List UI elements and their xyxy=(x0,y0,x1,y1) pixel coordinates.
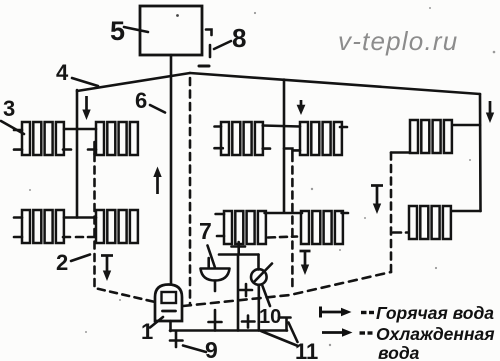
row2 mid dashed bottom link wire xyxy=(268,237,297,238)
funnel 7 stem top wire xyxy=(207,258,210,268)
radiator row1 mid B xyxy=(300,122,342,155)
valve tick on pump drop xyxy=(209,321,222,324)
row1 left A bottom-right stub wire xyxy=(63,148,71,151)
radiator row2 mid A xyxy=(224,211,266,244)
flow arrow up main riser xyxy=(153,167,161,195)
valve 9 tick xyxy=(170,339,183,342)
row2 mid A pump stub wire xyxy=(237,242,240,255)
bottom run right up-stub wire xyxy=(285,318,288,331)
pointer line label 10 xyxy=(263,286,271,306)
row1 mid A bottom-right stub wire xyxy=(263,147,270,150)
valve 10 handle xyxy=(254,264,273,283)
pointer line label 8 xyxy=(214,41,231,49)
funnel 7 bowl xyxy=(201,269,230,281)
radiator row1 left B xyxy=(96,122,138,155)
row2 left A bottom-right stub wire xyxy=(63,236,70,239)
radiator row2 left B xyxy=(96,210,138,243)
row2 left A outer bottom stub wire xyxy=(14,236,22,239)
row1 mid B bottom-left stub wire xyxy=(293,149,300,152)
T-arrow down right of mid radiators xyxy=(371,186,383,215)
legend cooled water symbol xyxy=(322,328,353,336)
T-arrow down near label 2 xyxy=(101,256,113,282)
svg-text:2: 2 xyxy=(56,250,68,275)
svg-text:Горячая вода: Горячая вода xyxy=(376,303,494,323)
svg-text:6: 6 xyxy=(135,88,147,113)
svg-text:3: 3 xyxy=(3,96,15,121)
row1 left pair top stub wire xyxy=(64,128,96,131)
return dashed main slanted wire xyxy=(183,272,391,306)
legend hot water symbol xyxy=(321,307,352,318)
row1 right bottom-left stub wire xyxy=(391,151,410,154)
supply main wire right segment xyxy=(190,73,480,94)
scan specks xyxy=(254,12,256,14)
pointer line label 4 xyxy=(72,78,98,86)
row2 left pair top stub wire xyxy=(64,216,96,219)
pointer line label 9 xyxy=(183,346,206,353)
radiator row1 left A xyxy=(22,122,64,155)
bypass right vertical upper wire xyxy=(257,255,260,270)
boiler drain wire xyxy=(169,321,172,331)
svg-text:7: 7 xyxy=(199,218,212,244)
svg-text:Охлажденная: Охлажденная xyxy=(376,324,495,344)
return dashed wire center (x190) xyxy=(189,78,192,305)
row1 mid A left stub wire xyxy=(215,125,222,128)
pointer line label 2 xyxy=(71,255,90,262)
row2 mid top stub wire xyxy=(265,212,302,215)
return dashed wire right branch (x391) xyxy=(390,153,393,273)
flow arrow down right drop xyxy=(486,101,494,123)
middle branch riser wire xyxy=(283,80,286,213)
row2 left A outer top stub wire xyxy=(14,216,22,219)
radiator row2 mid B xyxy=(301,211,343,244)
svg-text:11: 11 xyxy=(295,339,318,361)
legend hot water dashes xyxy=(361,311,374,314)
valve plus bottom left (vertical) xyxy=(247,316,250,328)
row2 mid A left stub wire xyxy=(216,213,224,216)
overflow dashed tick near tank (vertical) xyxy=(209,45,212,57)
overflow dashed tick near tank (horizontal) xyxy=(199,65,209,68)
right drop wire xyxy=(479,94,482,211)
row1 mid B right stub wire xyxy=(340,126,347,129)
boiler window xyxy=(162,292,177,303)
valve plus mid bypass (vertical) xyxy=(245,284,248,296)
row1 left A outer bottom stub wire xyxy=(14,148,22,151)
row2 right dashed left stub wire xyxy=(393,231,409,234)
valve plus on pump stub xyxy=(232,245,246,248)
radiator row2 left A xyxy=(22,210,64,243)
svg-text:9: 9 xyxy=(205,337,218,361)
flow arrow down middle riser xyxy=(297,100,306,115)
bottom run wire xyxy=(170,329,287,332)
overflow corner mark near tank xyxy=(206,30,212,36)
pointer line label 1 xyxy=(150,317,163,328)
valve plus bottom left (horizontal) xyxy=(242,320,255,323)
right row2 feed wire xyxy=(449,210,481,213)
supply main wire left segment xyxy=(77,73,190,91)
svg-text:10: 10 xyxy=(259,306,281,328)
expansion tank 5 xyxy=(140,6,202,55)
radiator row2 right xyxy=(409,206,451,239)
legend cooled water dashes xyxy=(360,331,373,334)
pump drop wire to bottom run xyxy=(214,310,217,331)
pointer line label 7 xyxy=(208,246,215,268)
valve 10 circle xyxy=(251,269,267,285)
row1 mid pair top stub wire xyxy=(263,126,300,127)
bypass right vertical lower wire xyxy=(257,285,260,331)
funnel 7 stem bottom wire xyxy=(214,281,217,292)
row2 left dashed bottom link wire xyxy=(76,236,95,239)
scan speck in tank xyxy=(176,14,179,17)
flow arrow down left riser xyxy=(82,96,90,120)
svg-text:4: 4 xyxy=(56,60,69,85)
pointer line label 3 xyxy=(1,121,24,134)
row1 left B bottom-left stub wire xyxy=(88,148,96,151)
boiler slot line xyxy=(163,310,176,313)
valve plus right end (horizontal) xyxy=(279,316,291,319)
svg-text:5: 5 xyxy=(110,16,125,46)
row1 left A outer top stub wire xyxy=(14,129,22,132)
radiator row1 mid A xyxy=(221,122,263,155)
pointer line label 6 xyxy=(150,105,165,113)
return dashed wire left (to boiler) xyxy=(95,154,156,302)
svg-text:1: 1 xyxy=(141,319,153,344)
main riser wire (tank to boiler) xyxy=(170,55,173,284)
pointer line label 11 a xyxy=(261,331,298,346)
T-arrow down below mid B radiator xyxy=(300,251,311,275)
pointer line label 11 b xyxy=(289,323,298,343)
svg-text:вода: вода xyxy=(378,343,420,361)
bypass left vertical wire xyxy=(237,255,240,331)
bypass top wire xyxy=(219,253,259,256)
row1 mid hook wire to return xyxy=(284,149,292,154)
row1 mid A bottom-left stub wire xyxy=(215,147,223,150)
pointer line label 5 xyxy=(124,27,148,32)
node return tick row1 left xyxy=(93,142,96,154)
svg-text:8: 8 xyxy=(232,23,246,53)
row2 mid A bottom-left stub wire xyxy=(217,235,224,238)
radiator row1 right xyxy=(410,120,452,153)
boiler U1 (item 1) xyxy=(155,285,182,322)
drain stub wire below bottom run xyxy=(175,331,178,347)
return dashed wire mid branch (x292) xyxy=(291,154,294,288)
left branch riser wire xyxy=(76,90,79,218)
svg-text:v-teplo.ru: v-teplo.ru xyxy=(338,26,458,56)
row2 mid B right stub wire xyxy=(342,212,348,215)
right row1 feed wire xyxy=(449,124,480,127)
valve plus mid bypass (horizontal) xyxy=(240,289,252,292)
